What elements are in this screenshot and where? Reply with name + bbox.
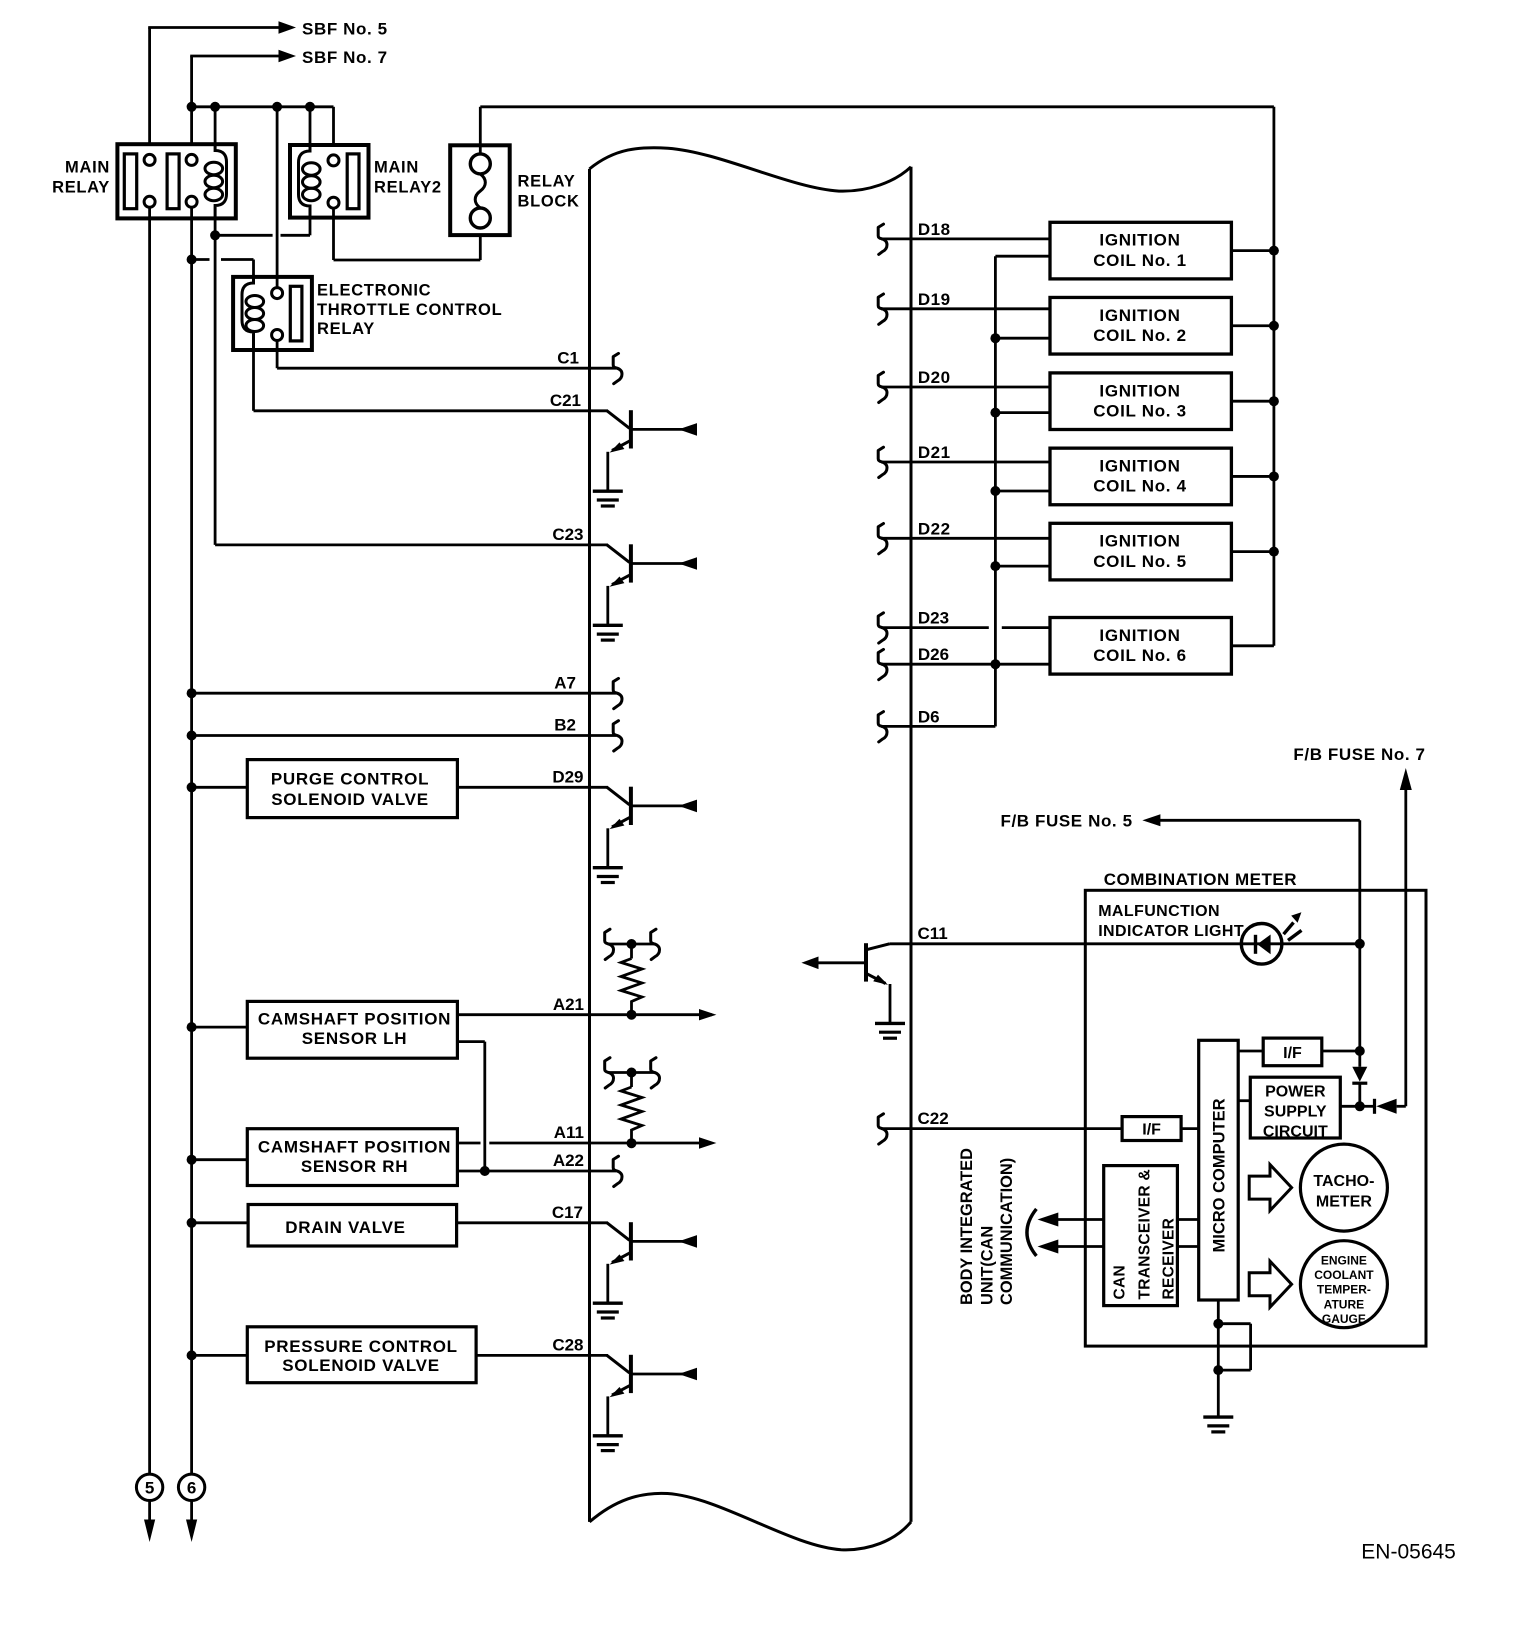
component IGNITION COIL No. 1 (1050, 222, 1231, 279)
label MAIN RELAY2 (374, 159, 442, 197)
wire D19 (881, 307, 1050, 310)
ground (593, 1303, 623, 1318)
ECM band right edge (910, 167, 913, 1522)
relay MAIN RELAY (117, 144, 235, 218)
block I/F (C22) (1122, 1117, 1181, 1141)
wire coil output (1231, 644, 1274, 647)
CAN link arc (1027, 1209, 1036, 1256)
junction (990, 333, 1000, 343)
wire D6 (881, 664, 995, 726)
label CAMSHAFT POSITION SENSOR LH (258, 1010, 451, 1049)
label IGNITION COIL No. 6 (1093, 626, 1187, 665)
wire MAIN RELAY2 coil feed (309, 107, 312, 145)
junction (990, 486, 1000, 496)
svg-text:RECEIVER: RECEIVER (1161, 1218, 1178, 1300)
junction (1213, 1319, 1223, 1329)
svg-text:A7: A7 (554, 673, 576, 692)
svg-text:RELAY2: RELAY2 (374, 179, 442, 197)
wire MIL to I/F (1358, 944, 1361, 1051)
wire to throttle relay coil (192, 260, 254, 285)
block CAN TRANSCEIVER & RECEIVER (1104, 1166, 1178, 1306)
connector C1 (613, 353, 622, 383)
label IGNITION COIL No. 4 (1093, 457, 1187, 496)
svg-text:DRAIN VALVE: DRAIN VALVE (285, 1218, 405, 1237)
wire to F/B FUSE No. 5 (1142, 814, 1359, 944)
wire D23 (881, 626, 1050, 629)
wire coil lower input (995, 411, 1050, 414)
junction (187, 688, 197, 698)
wire rail to circle 6 (190, 207, 193, 1474)
label MALFUNCTION INDICATOR LIGHT (1098, 903, 1244, 940)
svg-text:I/F: I/F (1142, 1122, 1161, 1139)
connector A7 (613, 678, 622, 708)
svg-text:UNIT(CAN: UNIT(CAN (979, 1226, 997, 1305)
svg-text:IGNITION: IGNITION (1099, 457, 1180, 476)
resistor pull-up A11 with connectors (605, 1058, 660, 1149)
label IGNITION COIL No. 5 (1093, 532, 1187, 571)
wire ignition supply bus (480, 107, 1274, 646)
svg-text:GAUGE: GAUGE (1322, 1312, 1366, 1326)
wire to SBF No. 7 (190, 50, 296, 155)
wire C11 (890, 942, 1360, 945)
ground (593, 868, 623, 883)
wire relay coil feed (214, 107, 217, 144)
block arrow to tachometer (1249, 1165, 1291, 1211)
svg-text:I/F: I/F (1283, 1045, 1302, 1062)
wire coil output (1231, 475, 1274, 478)
wire micro computer ground (1218, 1300, 1250, 1416)
wire A11 (457, 1142, 712, 1145)
svg-text:D29: D29 (552, 768, 583, 787)
svg-text:MALFUNCTION: MALFUNCTION (1098, 903, 1220, 920)
svg-text:COIL No. 6: COIL No. 6 (1093, 646, 1187, 665)
junction (1213, 1365, 1223, 1375)
diode D (vertical) (1352, 1051, 1367, 1106)
svg-text:IGNITION: IGNITION (1099, 381, 1180, 400)
svg-text:C11: C11 (918, 924, 948, 943)
wire A22 (457, 1170, 616, 1173)
wire C17 (457, 1221, 608, 1224)
svg-text:IGNITION: IGNITION (1099, 532, 1180, 551)
block POWER SUPPLY CIRCUIT (1250, 1077, 1340, 1138)
svg-text:COIL No. 2: COIL No. 2 (1093, 326, 1187, 345)
label IGNITION COIL No. 1 (1093, 231, 1187, 270)
connector D26 (878, 649, 887, 679)
junction (990, 659, 1000, 669)
wire coil lower input (995, 565, 1050, 568)
transistor D29 driver (607, 787, 697, 868)
junction (187, 782, 197, 792)
wire A21 (457, 1013, 712, 1016)
ECM band left edge (588, 169, 591, 1522)
transistor C28 driver (607, 1355, 697, 1436)
svg-text:MAIN: MAIN (374, 159, 419, 177)
label POWER SUPPLY CIRCUIT (1263, 1083, 1328, 1140)
svg-text:EN-05645: EN-05645 (1361, 1541, 1456, 1564)
wire purge valve feed (192, 786, 248, 789)
svg-text:PURGE CONTROL: PURGE CONTROL (271, 770, 429, 789)
svg-text:F/B FUSE No. 5: F/B FUSE No. 5 (1001, 812, 1133, 831)
block arrow to coolant gauge (1249, 1261, 1291, 1307)
connector A22 (613, 1156, 622, 1186)
svg-text:POWER: POWER (1265, 1083, 1326, 1100)
junction (1355, 1101, 1365, 1111)
wire D29 (457, 786, 608, 789)
label CAN TRANSCEIVER & RECEIVER (1112, 1169, 1178, 1300)
svg-text:D6: D6 (918, 707, 940, 726)
label CAMSHAFT POSITION SENSOR RH (258, 1137, 451, 1176)
wire I/F to junction (1322, 1050, 1360, 1053)
svg-text:C22: C22 (918, 1109, 949, 1128)
svg-text:C28: C28 (552, 1336, 583, 1355)
transistor C11 MIL driver (801, 943, 890, 1023)
junction (1355, 1046, 1365, 1056)
junction (1269, 321, 1279, 331)
wire drain valve feed (192, 1221, 249, 1224)
wire to SBF No. 5 (148, 21, 296, 154)
svg-text:TRANSCEIVER &: TRANSCEIVER & (1137, 1169, 1154, 1300)
svg-text:CIRCUIT: CIRCUIT (1263, 1123, 1328, 1140)
component IGNITION COIL No. 4 (1050, 448, 1231, 505)
wire ignition coil common bus (995, 256, 1050, 664)
label MAIN RELAY (52, 159, 110, 197)
wire CAN to micro computer (low) (1177, 1245, 1198, 1248)
wire C23 (215, 544, 608, 547)
svg-text:COIL No. 4: COIL No. 4 (1093, 477, 1187, 496)
wire LH to A22 (457, 1042, 484, 1171)
svg-text:COIL No. 1: COIL No. 1 (1093, 251, 1187, 270)
resistor pull-up A21 with connectors (605, 929, 660, 1020)
junction (1269, 547, 1279, 557)
svg-text:RELAY: RELAY (52, 179, 110, 197)
svg-text:TEMPER-: TEMPER- (1317, 1283, 1371, 1297)
svg-text:D20: D20 (918, 368, 951, 387)
svg-text:ENGINE: ENGINE (1321, 1254, 1367, 1268)
svg-text:D18: D18 (918, 220, 951, 239)
label IGNITION COIL No. 2 (1093, 306, 1187, 345)
svg-text:SUPPLY: SUPPLY (1264, 1103, 1327, 1120)
wire B2 (192, 734, 616, 737)
wire C28 (476, 1354, 608, 1357)
relay MAIN RELAY2 (290, 145, 369, 218)
LED malfunction indicator light (1241, 912, 1301, 964)
transistor C21 driver (607, 410, 697, 491)
svg-text:PRESSURE CONTROL: PRESSURE CONTROL (264, 1337, 458, 1356)
wire D22 (881, 537, 1050, 540)
label PURGE CONTROL SOLENOID VALVE (271, 770, 429, 809)
diode D (horizontal) (1360, 1099, 1406, 1114)
junction (187, 1155, 197, 1165)
svg-text:SENSOR RH: SENSOR RH (301, 1157, 408, 1176)
svg-text:MAIN: MAIN (65, 159, 110, 177)
wire CAN to micro computer (high) (1177, 1218, 1198, 1221)
svg-text:COOLANT: COOLANT (1314, 1268, 1374, 1282)
junction (1269, 246, 1279, 256)
junction (1355, 939, 1365, 949)
wire I/F to micro (1181, 1127, 1199, 1130)
svg-text:5: 5 (145, 1479, 154, 1498)
wire C1 (277, 341, 616, 369)
wire C21 (254, 350, 609, 411)
svg-text:D19: D19 (918, 290, 951, 309)
svg-text:CAN: CAN (1112, 1265, 1129, 1299)
label RELAY BLOCK (518, 173, 580, 211)
wire coil to C23 (214, 218, 217, 545)
connector D6 (878, 712, 887, 742)
svg-text:IGNITION: IGNITION (1099, 231, 1180, 250)
junction (272, 102, 282, 112)
wire micro to I/F (1238, 1050, 1263, 1053)
svg-text:THROTTLE CONTROL: THROTTLE CONTROL (317, 301, 502, 319)
junction (990, 561, 1000, 571)
svg-text:A11: A11 (554, 1123, 584, 1142)
relay block (450, 145, 510, 235)
junction (187, 731, 197, 741)
svg-text:SBF No. 5: SBF No. 5 (302, 20, 388, 39)
ground (593, 1436, 623, 1451)
svg-text:C1: C1 (557, 348, 579, 367)
wire camshaft RH feed (192, 1158, 248, 1161)
svg-text:SBF No. 7: SBF No. 7 (302, 48, 388, 67)
block COMBINATION METER (1085, 890, 1426, 1346)
svg-text:COMBINATION METER: COMBINATION METER (1104, 870, 1297, 889)
component IGNITION COIL No. 6 (1050, 618, 1231, 675)
component PURGE CONTROL SOLENOID VALVE (247, 760, 457, 818)
svg-text:D26: D26 (918, 645, 949, 664)
connector D22 (878, 524, 887, 554)
svg-text:RELAY: RELAY (518, 173, 576, 191)
wire junction to power supply (1340, 1105, 1360, 1108)
ground (593, 491, 623, 506)
svg-text:BLOCK: BLOCK (518, 193, 580, 211)
wire coil output (1231, 400, 1274, 403)
wire camshaft LH feed (192, 1026, 248, 1029)
wire to F/B FUSE No. 7 (1400, 768, 1412, 1106)
wire CAN high (1038, 1213, 1104, 1227)
ground (593, 625, 623, 640)
svg-text:ELECTRONIC: ELECTRONIC (317, 282, 431, 300)
wire D18 (881, 237, 1050, 240)
wire D20 (881, 386, 1050, 389)
gauge ENGINE COOLANT TEMPERATURE GAUGE (1300, 1241, 1387, 1328)
component CAMSHAFT POSITION SENSOR LH (247, 1001, 457, 1058)
label BODY INTEGRATED UNIT(CAN COMMUNICATION) (958, 1148, 1016, 1305)
svg-text:RELAY: RELAY (317, 320, 375, 338)
svg-text:COIL No. 5: COIL No. 5 (1093, 552, 1187, 571)
connector D19 (878, 294, 887, 324)
wire coil link (215, 218, 310, 236)
svg-text:SOLENOID VALVE: SOLENOID VALVE (271, 790, 428, 809)
component CAMSHAFT POSITION SENSOR RH (247, 1129, 457, 1186)
junction (1269, 396, 1279, 406)
block MICRO COMPUTER (1199, 1040, 1239, 1300)
wire power bus (192, 107, 334, 155)
svg-text:TACHO-: TACHO- (1313, 1173, 1374, 1190)
svg-text:C21: C21 (550, 391, 581, 410)
label PRESSURE CONTROL SOLENOID VALVE (264, 1337, 458, 1375)
component IGNITION COIL No. 3 (1050, 373, 1231, 430)
gauge TACHO-METER (1300, 1144, 1387, 1231)
wire coil output (1231, 249, 1274, 252)
svg-text:COIL No. 3: COIL No. 3 (1093, 401, 1187, 420)
svg-text:D23: D23 (918, 609, 949, 628)
svg-text:D21: D21 (918, 443, 951, 462)
junction (990, 408, 1000, 418)
junction (480, 1166, 490, 1176)
component PRESSURE CONTROL SOLENOID VALVE (247, 1327, 476, 1383)
wire relay block feed (479, 107, 482, 154)
svg-text:SOLENOID VALVE: SOLENOID VALVE (282, 1356, 439, 1375)
svg-text:A21: A21 (553, 995, 584, 1014)
connector D21 (878, 447, 887, 477)
svg-text:C23: C23 (552, 525, 583, 544)
junction (187, 102, 197, 112)
svg-text:A22: A22 (553, 1151, 584, 1170)
svg-text:MICRO COMPUTER: MICRO COMPUTER (1211, 1098, 1229, 1252)
junction (210, 230, 220, 240)
svg-text:F/B FUSE No. 7: F/B FUSE No. 7 (1293, 745, 1425, 764)
connector C22 (878, 1114, 887, 1144)
junction (187, 1350, 197, 1360)
junction (1269, 471, 1279, 481)
svg-text:COMMUNICATION): COMMUNICATION) (998, 1158, 1016, 1305)
svg-text:D22: D22 (918, 519, 951, 538)
svg-text:ATURE: ATURE (1324, 1297, 1364, 1311)
wire A7 (192, 692, 616, 695)
ECM band bottom torn edge (590, 1493, 912, 1549)
component DRAIN VALVE (248, 1205, 457, 1247)
node circled 6 (178, 1474, 204, 1542)
transistor C23 driver (607, 544, 697, 625)
svg-text:IGNITION: IGNITION (1099, 306, 1180, 325)
svg-text:SENSOR LH: SENSOR LH (302, 1029, 407, 1048)
wire D26 (881, 663, 1050, 666)
ground (1203, 1417, 1233, 1432)
node circled 5 (136, 1474, 162, 1542)
junction (187, 255, 197, 265)
svg-text:6: 6 (187, 1479, 196, 1498)
label IGNITION COIL No. 3 (1093, 381, 1187, 420)
connector D23 (878, 613, 887, 643)
wire throttle relay pin feed (276, 107, 279, 288)
connector D18 (878, 224, 887, 254)
junction (187, 1022, 197, 1032)
block I/F (power) (1263, 1038, 1322, 1066)
junction (210, 102, 220, 112)
label ELECTRONIC THROTTLE CONTROL RELAY (317, 282, 502, 339)
wire coil lower input (995, 337, 1050, 340)
wire D21 (881, 461, 1050, 464)
wire coil output (1231, 324, 1274, 327)
wire coil lower input (995, 490, 1050, 493)
svg-text:BODY INTEGRATED: BODY INTEGRATED (958, 1148, 976, 1305)
wire coil output (1231, 550, 1274, 553)
svg-text:INDICATOR LIGHT: INDICATOR LIGHT (1098, 923, 1244, 940)
transistor C17 driver (607, 1222, 697, 1303)
ECM band top torn edge (590, 148, 912, 191)
component IGNITION COIL No. 2 (1050, 297, 1231, 354)
svg-text:C17: C17 (552, 1203, 583, 1222)
svg-text:IGNITION: IGNITION (1099, 626, 1180, 645)
junction (305, 102, 315, 112)
svg-text:METER: METER (1316, 1194, 1372, 1211)
wire C22 (881, 1127, 1122, 1130)
wire CAN low (1038, 1240, 1104, 1254)
svg-text:CAMSHAFT POSITION: CAMSHAFT POSITION (258, 1010, 451, 1029)
wire rail to circle 5 (148, 207, 151, 1474)
wire micro to power supply (1238, 1099, 1250, 1102)
svg-text:B2: B2 (554, 716, 576, 735)
ground (875, 1023, 905, 1038)
junction (187, 1218, 197, 1228)
wire pressure valve feed (192, 1354, 248, 1357)
svg-text:CAMSHAFT POSITION: CAMSHAFT POSITION (258, 1137, 451, 1156)
connector B2 (613, 721, 622, 751)
component IGNITION COIL No. 5 (1050, 523, 1231, 580)
wire MAIN RELAY2 pin to relay block (334, 208, 481, 260)
relay ELECTRONIC THROTTLE CONTROL RELAY (233, 277, 312, 350)
connector D20 (878, 372, 887, 402)
